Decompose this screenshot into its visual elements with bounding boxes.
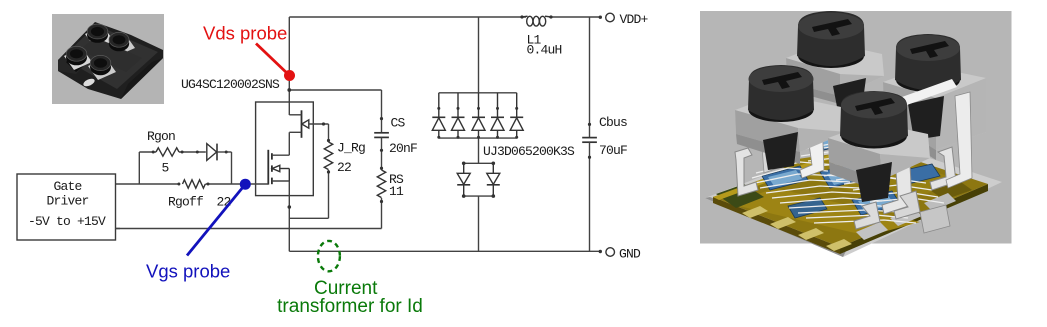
board side face front-right (840, 184, 988, 254)
resistor Rgoff (183, 180, 206, 188)
module body silhouette (58, 22, 163, 99)
PHOTO: small module package (top-left) (52, 14, 164, 104)
schematic labels (mono) (28, 12, 649, 262)
svg-text:22: 22 (217, 195, 231, 210)
substrate tabs bottom-right edge (856, 193, 956, 240)
die group: blue dies (762, 131, 940, 218)
svg-text:20nF: 20nF (389, 141, 417, 156)
JFET channel bar (301, 110, 303, 138)
svg-text:Cbus: Cbus (599, 115, 627, 130)
diode D1 of UJ3D065200K3S (432, 93, 445, 138)
svg-text:UJ3D065200K3S: UJ3D065200K3S (483, 144, 575, 159)
strap right hook (930, 147, 956, 190)
svg-text:70uF: 70uF (599, 143, 627, 158)
terminal T3 cylinder (66, 46, 87, 65)
housing C (left) plate (735, 94, 847, 170)
die 2 (762, 166, 808, 190)
die inner 1 (814, 135, 846, 149)
board trace band top (770, 150, 965, 205)
baseplate front edge shade (705, 197, 846, 257)
wire: CS branch top horizontal (289, 90, 381, 133)
wire: CS to RS (381, 138, 383, 171)
die inner 5 (858, 194, 894, 212)
MOSFET channel segments (271, 153, 273, 184)
capacitor cap B (right) (895, 34, 961, 92)
Vgs probe annotation (blue) (146, 179, 251, 282)
pin dots: Cbus (588, 123, 591, 126)
board edge highlight top-left (713, 143, 868, 200)
board dark patch right (930, 180, 972, 200)
pin dots: J_Rg ends (327, 139, 330, 142)
wire: diode to branch right vertical (217, 152, 232, 184)
gate driver box (17, 174, 116, 240)
housing A (top) plate (786, 42, 884, 112)
current transformer ellipse (318, 241, 340, 271)
junction: rail/inductor pins (520, 15, 523, 18)
MOSFET gate bar (267, 150, 269, 185)
node dot Vds probe (284, 70, 295, 81)
module top face (62, 25, 158, 89)
wire: JFET source to MOSFET drain (288, 132, 290, 155)
pin dots: diode array bottoms (437, 136, 440, 139)
die 1 (808, 131, 852, 152)
svg-text:Vds probe: Vds probe (203, 23, 287, 44)
svg-text:0.4uH: 0.4uH (527, 43, 562, 58)
die inner 2 (768, 170, 802, 186)
wire: diode array feed vertical (478, 17, 480, 93)
left flange facet (58, 50, 88, 74)
diamond cutout (66, 53, 88, 72)
pin dot: CS top (380, 117, 383, 120)
photo background (700, 11, 1012, 244)
junction: drain/CS tap (287, 88, 291, 92)
capacitor Cbus (582, 138, 597, 143)
wire: source down to ground rail (288, 181, 290, 251)
resistor Rgon (156, 148, 179, 156)
svg-text:11: 11 (389, 184, 404, 199)
MOSFET source stub (272, 180, 289, 182)
wire: gate lead into module (116, 183, 181, 185)
wire: Rgon to diode (179, 151, 206, 153)
svg-text:Vgs probe: Vgs probe (146, 261, 230, 282)
board top copper (713, 143, 988, 247)
pointer line Vds (256, 44, 290, 76)
wire: lower pair to ground rail (478, 196, 480, 251)
die 4 (896, 164, 940, 185)
housing D (center) plate (828, 122, 930, 202)
svg-text:-5V to +15V: -5V to +15V (28, 214, 106, 229)
PHOTO: 3D power module render (right) (700, 11, 1012, 257)
junction and pin dots (152, 15, 602, 253)
JFET gate arrow (302, 120, 309, 128)
terminal pad 4 (88, 58, 116, 80)
wire: J_Rg bottom to source (289, 170, 328, 218)
svg-text:transformer for Id: transformer for Id (277, 296, 423, 317)
JFET drain stub (289, 114, 301, 116)
terminal T4 cylinder (90, 55, 111, 75)
capacitor CS (374, 133, 389, 138)
wire: lower pair bottom bus (464, 195, 494, 197)
module box UG4SC120002SNS (256, 102, 314, 196)
wire: Cbus branch top (589, 17, 591, 137)
svg-text:Gate: Gate (53, 179, 81, 194)
diode D6 (lower pair left) (457, 163, 470, 196)
junction: MOSFET source pin (288, 205, 292, 209)
capacitor cap C (left) (748, 65, 814, 122)
pin dot: J_Rg gate wire (322, 122, 325, 125)
svg-text:Rgoff: Rgoff (168, 195, 203, 210)
svg-text:22: 22 (337, 160, 351, 175)
terminal T1 cylinder (87, 24, 108, 43)
wire: top rail right segment to VDD (549, 16, 601, 18)
board edge pads bottom-left (742, 206, 852, 251)
die inner 3 (827, 167, 864, 185)
junction: VDD pin dot (599, 16, 602, 19)
junction: GND pin dot (599, 250, 602, 253)
wire: Cbus branch bottom (589, 142, 591, 251)
oval mounting hole (82, 77, 95, 88)
MOSFET body arrow (272, 165, 289, 181)
strap left mid (760, 115, 778, 173)
wire: array to lower diode pair (478, 138, 480, 163)
svg-text:GND: GND (619, 247, 641, 262)
diode D5 (510, 93, 523, 138)
wire: Rgon branch left horizontal (139, 151, 156, 153)
wire: lower pair top bus (464, 162, 494, 164)
wire: driver return lead (116, 228, 121, 230)
pin dots: Rgon ends (152, 151, 155, 154)
pin dots: diode array tops (437, 107, 440, 110)
resistor RS (377, 170, 385, 198)
wire: top rail VDD left segment (289, 16, 526, 18)
photo background (52, 14, 164, 104)
diode Dg (gate branch) (207, 144, 217, 161)
pin dots: Rgoff ends (177, 183, 180, 186)
svg-text:UG4SC120002SNS: UG4SC120002SNS (181, 77, 280, 92)
strap bottom hook (854, 202, 880, 229)
wire: ground rail (289, 250, 600, 252)
svg-text:Driver: Driver (46, 194, 88, 209)
svg-text:VDD+: VDD+ (620, 12, 649, 27)
Vds probe annotation (red) (203, 23, 295, 82)
resistor J_Rg (324, 142, 332, 170)
wire: RS bottom to return rail (381, 198, 383, 229)
neck C (763, 132, 798, 170)
diode D4 (491, 93, 504, 138)
die 6 (788, 198, 827, 218)
wire: drain vertical from rail into module (288, 17, 290, 115)
diode D3 (472, 93, 485, 138)
board side face front-left (713, 197, 840, 254)
current transformer annotation (green) (277, 241, 423, 317)
bottom terminal block (920, 205, 950, 233)
svg-text:J_Rg: J_Rg (337, 141, 365, 156)
node dot Vgs probe (240, 179, 251, 190)
wire: diode array top bus (439, 92, 517, 94)
terminal pad 1 (85, 26, 113, 48)
right flange facet (121, 58, 163, 99)
svg-text:CS: CS (391, 116, 406, 131)
wire: JFET gate to J_Rg (309, 124, 329, 141)
baseplate flange (705, 137, 1002, 257)
strap right vertical (946, 92, 972, 188)
pin dots: gate diode ends (196, 151, 199, 154)
pin dots: CS bottom / RS top / RS bottom (380, 149, 383, 152)
strap far left hook (735, 148, 758, 196)
strap center tall (882, 123, 912, 214)
bottom right tab (894, 191, 920, 219)
bond wires (752, 138, 944, 223)
neck D (856, 162, 892, 202)
die 3 (820, 162, 872, 188)
capacitor cap A (top) (797, 11, 865, 68)
wire: Rgon branch left vertical (138, 152, 140, 184)
neck B (908, 96, 944, 140)
neck A (833, 78, 866, 112)
capacitor cap D (center) (840, 91, 908, 149)
terminal GND circle (606, 248, 615, 257)
terminal T2 cylinder (109, 32, 129, 51)
svg-text:Rgon: Rgon (147, 129, 175, 144)
wire: driver return rail (116, 228, 382, 230)
strap between C and D (800, 117, 824, 178)
die 5 (852, 191, 901, 215)
JFET source stub (289, 131, 301, 133)
terminal pad 3 (64, 48, 92, 70)
strap over B (888, 79, 957, 110)
mid ridge band (80, 37, 142, 72)
MOSFET drain stub (272, 154, 289, 156)
diode D2 (452, 93, 465, 138)
board dark patch left (716, 184, 764, 208)
wire: Rgoff to gate (206, 183, 269, 185)
svg-text:5: 5 (162, 161, 169, 176)
terminal pad 2 (107, 34, 135, 56)
junction dots: lower pair corners (462, 162, 466, 166)
board trace band left (730, 188, 920, 236)
diode D7 (lower pair right) (487, 163, 500, 196)
housing B (right) plate/box (883, 66, 986, 160)
terminal VDD+ circle (606, 13, 615, 22)
inductor L1 (522, 16, 551, 26)
wire: diode array bottom bus (439, 137, 517, 139)
pointer line Vgs (187, 184, 245, 255)
